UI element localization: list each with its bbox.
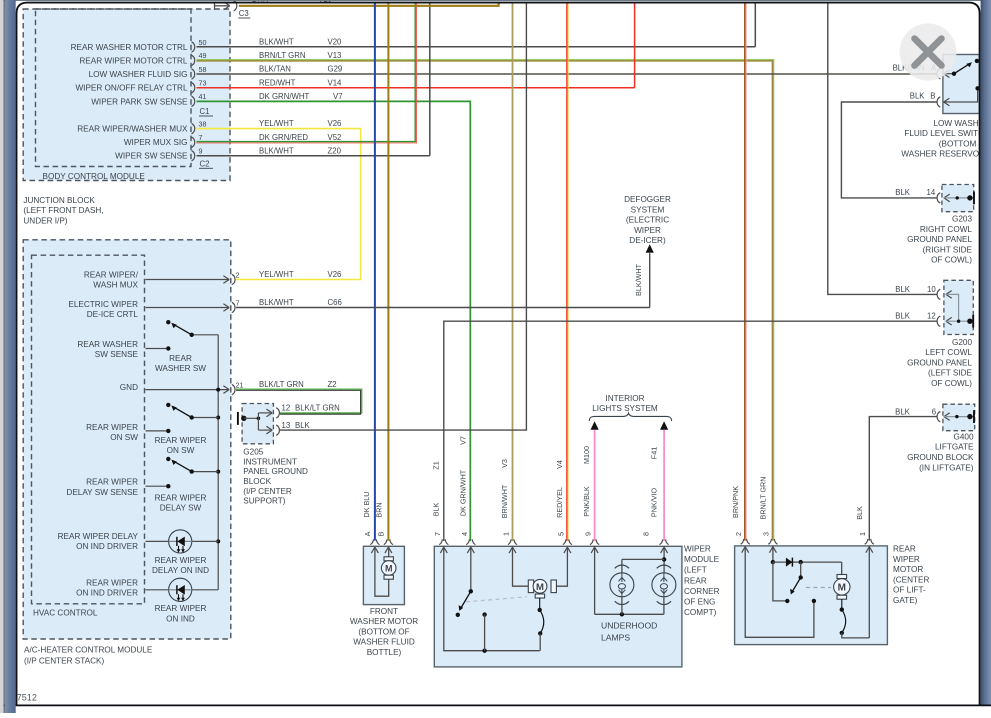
svg-text:M: M xyxy=(838,583,846,594)
svg-text:REAR WIPER DELAY: REAR WIPER DELAY xyxy=(58,532,139,541)
svg-text:REAR WIPER: REAR WIPER xyxy=(155,556,207,565)
svg-text:SYSTEM: SYSTEM xyxy=(631,205,665,214)
svg-text:ON SW: ON SW xyxy=(110,433,138,442)
svg-text:REAR WIPER: REAR WIPER xyxy=(155,436,207,445)
svg-text:(I/P CENTER: (I/P CENTER xyxy=(243,487,292,496)
svg-text:RIGHT COWL: RIGHT COWL xyxy=(920,225,973,234)
svg-text:7: 7 xyxy=(433,532,442,536)
svg-text:A/C-HEATER CONTROL MODULE: A/C-HEATER CONTROL MODULE xyxy=(24,646,153,655)
svg-text:WASHER RESERVOIR): WASHER RESERVOIR) xyxy=(901,150,990,159)
svg-text:BLK/WHT: BLK/WHT xyxy=(259,146,294,155)
svg-text:Z2: Z2 xyxy=(328,380,337,389)
svg-text:OF COWL): OF COWL) xyxy=(931,379,972,388)
svg-text:8: 8 xyxy=(642,532,651,536)
svg-text:BLOCK: BLOCK xyxy=(243,477,271,486)
svg-text:LEFT COWL: LEFT COWL xyxy=(925,348,972,357)
svg-text:DELAY SW: DELAY SW xyxy=(160,504,202,513)
svg-text:1: 1 xyxy=(858,532,867,536)
svg-text:OF COWL): OF COWL) xyxy=(931,256,972,265)
svg-text:M100: M100 xyxy=(582,446,591,464)
svg-text:6: 6 xyxy=(932,407,936,416)
svg-text:PANEL GROUND: PANEL GROUND xyxy=(243,467,308,476)
svg-text:SW SENSE: SW SENSE xyxy=(95,350,139,359)
svg-text:BLK/LT GRN: BLK/LT GRN xyxy=(259,380,304,389)
svg-text:Z1: Z1 xyxy=(431,461,440,469)
svg-text:BLK: BLK xyxy=(895,312,911,321)
svg-text:BRN/WHT: BRN/WHT xyxy=(500,484,509,518)
svg-text:ELECTRIC WIPER: ELECTRIC WIPER xyxy=(68,300,138,309)
svg-text:BLK: BLK xyxy=(895,285,911,294)
svg-text:DEFOGGER: DEFOGGER xyxy=(624,195,671,204)
svg-text:REAR WIPER: REAR WIPER xyxy=(86,423,138,432)
svg-text:(LEFT SIDE: (LEFT SIDE xyxy=(928,369,973,378)
svg-text:WASHER SW: WASHER SW xyxy=(155,364,206,373)
svg-text:13: 13 xyxy=(282,421,291,430)
svg-text:3: 3 xyxy=(762,532,771,536)
svg-text:JUNCTION BLOCK: JUNCTION BLOCK xyxy=(23,196,95,205)
svg-text:(CENTER: (CENTER xyxy=(893,575,929,584)
svg-text:MODULE: MODULE xyxy=(684,555,720,564)
svg-text:ON IND DRIVER: ON IND DRIVER xyxy=(76,589,138,598)
svg-text:WIPER: WIPER xyxy=(684,545,711,554)
svg-text:WIPER MUX SIG: WIPER MUX SIG xyxy=(124,138,188,147)
svg-text:Z20: Z20 xyxy=(328,146,342,155)
svg-text:(I/P CENTER STACK): (I/P CENTER STACK) xyxy=(24,657,104,666)
svg-text:7512: 7512 xyxy=(17,693,37,703)
svg-text:COMPT): COMPT) xyxy=(684,608,717,617)
svg-text:GND: GND xyxy=(120,383,138,392)
svg-text:DELAY ON IND: DELAY ON IND xyxy=(152,566,209,575)
svg-text:REAR: REAR xyxy=(169,354,192,363)
svg-text:14: 14 xyxy=(927,188,936,197)
svg-text:1: 1 xyxy=(502,532,511,536)
svg-text:(LEFT FRONT DASH,: (LEFT FRONT DASH, xyxy=(23,206,103,215)
svg-text:G203: G203 xyxy=(952,215,972,224)
svg-text:G200: G200 xyxy=(952,338,972,347)
svg-text:BLK/TAN: BLK/TAN xyxy=(259,65,291,74)
svg-text:5: 5 xyxy=(556,532,565,536)
svg-text:BLK/WHT: BLK/WHT xyxy=(259,298,294,307)
svg-text:BLK: BLK xyxy=(895,407,911,416)
svg-text:ON IND DRIVER: ON IND DRIVER xyxy=(76,542,138,551)
svg-text:BLK/LT GRN: BLK/LT GRN xyxy=(295,404,340,413)
svg-text:V26: V26 xyxy=(328,270,342,279)
svg-text:LAMPS: LAMPS xyxy=(601,632,630,642)
svg-text:BODY CONTROL MODULE: BODY CONTROL MODULE xyxy=(43,172,146,181)
svg-text:V7: V7 xyxy=(333,92,343,101)
svg-text:LIFTGATE: LIFTGATE xyxy=(935,443,974,452)
svg-text:BLK: BLK xyxy=(295,421,311,430)
svg-text:DK BLU: DK BLU xyxy=(362,492,371,518)
svg-text:49: 49 xyxy=(199,51,207,60)
svg-text:CORNER: CORNER xyxy=(684,587,720,596)
svg-text:GATE): GATE) xyxy=(893,596,918,605)
svg-text:ON IND: ON IND xyxy=(166,614,195,623)
svg-text:WIPER: WIPER xyxy=(634,226,661,235)
svg-text:INTERIOR: INTERIOR xyxy=(605,394,644,403)
svg-text:MOTOR: MOTOR xyxy=(893,565,923,574)
svg-text:BLK: BLK xyxy=(895,188,911,197)
svg-text:10: 10 xyxy=(927,285,936,294)
svg-text:WASHER FLUID: WASHER FLUID xyxy=(353,638,415,647)
svg-text:WIPER PARK SW SENSE: WIPER PARK SW SENSE xyxy=(91,97,188,106)
svg-text:RED/YEL: RED/YEL xyxy=(555,487,564,518)
svg-text:B: B xyxy=(377,531,386,536)
svg-text:YEL/WHT: YEL/WHT xyxy=(259,270,294,279)
svg-text:REAR WIPER: REAR WIPER xyxy=(86,579,138,588)
svg-text:V3: V3 xyxy=(500,459,509,468)
svg-text:V52: V52 xyxy=(328,133,342,142)
svg-text:V14: V14 xyxy=(328,78,343,87)
svg-text:G400: G400 xyxy=(953,432,973,441)
svg-text:FLUID LEVEL SWITCH: FLUID LEVEL SWITCH xyxy=(904,129,990,138)
svg-text:B: B xyxy=(930,92,935,101)
svg-text:9: 9 xyxy=(584,532,593,536)
svg-text:9: 9 xyxy=(199,147,203,156)
svg-text:OF ENG: OF ENG xyxy=(684,598,715,607)
svg-text:C3: C3 xyxy=(239,9,249,18)
svg-text:C66: C66 xyxy=(328,298,342,307)
svg-text:G29: G29 xyxy=(328,65,343,74)
svg-text:F41: F41 xyxy=(650,447,659,459)
svg-text:DELAY SW SENSE: DELAY SW SENSE xyxy=(66,488,138,497)
svg-text:M: M xyxy=(536,582,544,593)
svg-text:WIPER ON/OFF RELAY CTRL: WIPER ON/OFF RELAY CTRL xyxy=(75,84,188,93)
svg-text:DK GRN/RED: DK GRN/RED xyxy=(259,133,308,142)
svg-text:58: 58 xyxy=(199,65,207,74)
svg-text:WIPER: WIPER xyxy=(893,555,920,564)
svg-text:BRN/PNK: BRN/PNK xyxy=(731,486,740,518)
svg-text:REAR WIPER: REAR WIPER xyxy=(155,493,207,502)
svg-text:38: 38 xyxy=(199,119,207,128)
svg-text:7: 7 xyxy=(199,133,203,142)
svg-text:GROUND BLOCK: GROUND BLOCK xyxy=(907,453,974,462)
svg-text:(BOTTOM OF: (BOTTOM OF xyxy=(358,627,409,636)
svg-text:FRONT: FRONT xyxy=(370,607,398,616)
svg-text:REAR WIPER/WASHER MUX: REAR WIPER/WASHER MUX xyxy=(77,125,188,134)
svg-text:V7: V7 xyxy=(458,436,467,445)
svg-text:DE-ICER): DE-ICER) xyxy=(629,236,666,245)
svg-text:LOW WASHER FLUID SIG: LOW WASHER FLUID SIG xyxy=(89,70,188,79)
svg-text:PNK/BLK: PNK/BLK xyxy=(582,486,591,517)
svg-text:12: 12 xyxy=(927,312,936,321)
svg-text:OF LIFT-: OF LIFT- xyxy=(893,586,926,595)
svg-text:GROUND PANEL: GROUND PANEL xyxy=(907,235,972,244)
svg-text:C1: C1 xyxy=(200,107,210,116)
svg-text:41: 41 xyxy=(199,92,207,101)
svg-text:DK GRN/WHT: DK GRN/WHT xyxy=(458,469,467,516)
svg-text:UNDER I/P): UNDER I/P) xyxy=(23,216,67,225)
svg-text:V20: V20 xyxy=(328,38,343,47)
svg-text:BLK/WHT: BLK/WHT xyxy=(259,38,294,47)
svg-text:ON SW: ON SW xyxy=(167,446,195,455)
svg-text:WASHER MOTOR: WASHER MOTOR xyxy=(350,617,418,626)
svg-text:PNK/VIO: PNK/VIO xyxy=(650,488,659,518)
svg-text:YEL/WHT: YEL/WHT xyxy=(259,119,294,128)
svg-text:V13: V13 xyxy=(328,51,342,60)
svg-text:GROUND PANEL: GROUND PANEL xyxy=(907,358,972,367)
svg-text:BLK: BLK xyxy=(855,506,864,520)
svg-text:SUPPORT): SUPPORT) xyxy=(243,497,285,506)
svg-text:(ELECTRIC: (ELECTRIC xyxy=(626,216,669,225)
svg-text:WIPER SW SENSE: WIPER SW SENSE xyxy=(115,152,188,161)
svg-text:REAR WIPER: REAR WIPER xyxy=(86,478,138,487)
svg-text:BRN/LT GRN: BRN/LT GRN xyxy=(759,477,768,520)
svg-text:2: 2 xyxy=(236,270,240,279)
svg-text:7: 7 xyxy=(236,298,240,307)
svg-text:C2: C2 xyxy=(200,159,210,168)
svg-text:LIGHTS SYSTEM: LIGHTS SYSTEM xyxy=(592,404,658,413)
svg-text:RED/WHT: RED/WHT xyxy=(259,78,296,87)
svg-text:BLK/WHT: BLK/WHT xyxy=(634,263,643,296)
svg-text:REAR WASHER MOTOR CTRL: REAR WASHER MOTOR CTRL xyxy=(71,43,188,52)
svg-text:BLK: BLK xyxy=(431,503,440,517)
svg-text:REAR: REAR xyxy=(684,576,707,585)
svg-text:(IN LIFTGATE): (IN LIFTGATE) xyxy=(919,463,974,472)
svg-text:HVAC CONTROL: HVAC CONTROL xyxy=(33,609,98,618)
svg-text:(RIGHT SIDE: (RIGHT SIDE xyxy=(923,245,973,254)
svg-text:50: 50 xyxy=(199,38,207,47)
svg-text:M: M xyxy=(385,563,393,573)
svg-text:2: 2 xyxy=(734,532,743,536)
svg-text:REAR WIPER: REAR WIPER xyxy=(155,604,207,613)
svg-text:BRN/LT GRN: BRN/LT GRN xyxy=(259,51,306,60)
svg-text:DK GRN/WHT: DK GRN/WHT xyxy=(259,92,309,101)
svg-text:73: 73 xyxy=(199,79,207,88)
svg-text:4: 4 xyxy=(460,532,469,536)
svg-text:A: A xyxy=(363,531,372,536)
svg-text:REAR WASHER: REAR WASHER xyxy=(77,340,138,349)
svg-text:WASH MUX: WASH MUX xyxy=(93,281,138,290)
svg-text:BRN: BRN xyxy=(375,502,384,517)
svg-text:REAR WIPER/: REAR WIPER/ xyxy=(84,270,139,279)
svg-text:REAR: REAR xyxy=(893,545,916,554)
svg-text:UNDERHOOD: UNDERHOOD xyxy=(601,620,657,630)
svg-text:V4: V4 xyxy=(555,460,564,469)
svg-text:G205: G205 xyxy=(243,447,263,456)
svg-text:(LEFT: (LEFT xyxy=(684,566,707,575)
svg-text:INSTRUMENT: INSTRUMENT xyxy=(243,457,297,466)
svg-text:DE-ICE CRTL: DE-ICE CRTL xyxy=(87,310,139,319)
svg-text:REAR WIPER MOTOR CTRL: REAR WIPER MOTOR CTRL xyxy=(79,56,188,65)
svg-text:21: 21 xyxy=(236,380,244,389)
svg-text:V26: V26 xyxy=(328,119,342,128)
svg-text:BOTTLE): BOTTLE) xyxy=(367,648,402,657)
svg-text:12: 12 xyxy=(282,404,291,413)
svg-text:BLK: BLK xyxy=(910,92,926,101)
